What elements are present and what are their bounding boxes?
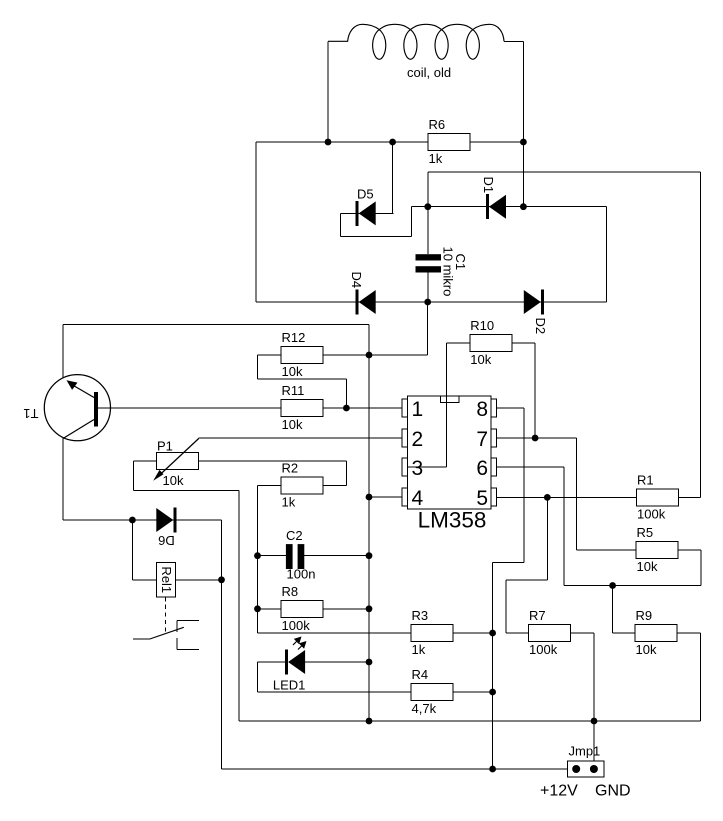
- wire R12 left: [258, 354, 281, 356]
- resistor R4 4,7k: [411, 684, 453, 701]
- wire pin5 to R1: [497, 496, 637, 498]
- resistor R2 1k: [281, 477, 323, 494]
- junction D4-D2 rail / C1 bottom: [424, 299, 431, 306]
- junction C2 left: [254, 552, 261, 559]
- LED1 light arrows: [293, 639, 300, 646]
- junction D6 row / relay branch: [129, 517, 136, 524]
- wire R8 left: [258, 608, 282, 610]
- svg-text:D5: D5: [357, 187, 374, 202]
- svg-text:100n: 100n: [287, 567, 316, 582]
- wire R8 right: [323, 608, 369, 610]
- junction pin5 / R7 drop: [544, 494, 551, 501]
- wire x257 vertical: [257, 486, 259, 634]
- svg-text:10k: 10k: [282, 417, 303, 432]
- LM358 pin 7: [491, 429, 497, 447]
- svg-text:10k: 10k: [636, 642, 657, 657]
- wire D5 row: [341, 212, 394, 214]
- wire frame top: [428, 171, 701, 173]
- wire P1 wiper to pin2: [199, 437, 403, 439]
- wire +12V rail: [222, 768, 569, 770]
- resistor R12 10k: [281, 347, 323, 364]
- svg-text:3: 3: [412, 457, 424, 480]
- wire C1 node downleg: [427, 302, 429, 355]
- wire D5 step to node: [411, 206, 427, 208]
- wire x369 vertical bus: [368, 324, 370, 721]
- junction R12 right / bus: [366, 352, 373, 359]
- svg-text:LED1: LED1: [273, 678, 306, 693]
- relay Rel1 coil box: [157, 562, 176, 597]
- wire pin6 down: [563, 467, 565, 586]
- wire P1 right: [199, 460, 347, 462]
- T1 emitter with arrow: [70, 384, 94, 398]
- LM358 pin 2: [402, 429, 408, 447]
- LM358 pin 6: [491, 458, 497, 476]
- wire R9 right: [677, 632, 700, 634]
- wire D6 row: [63, 519, 222, 521]
- junction coil-right / R6 rail: [520, 139, 527, 146]
- wire coil right vertical: [522, 41, 524, 206]
- wire P1 left: [134, 460, 157, 462]
- junction LED1 right / bus: [366, 659, 373, 666]
- wire pin7: [497, 437, 577, 439]
- svg-text:1k: 1k: [282, 495, 296, 510]
- wire coil left lead: [327, 41, 329, 142]
- wire pin4: [369, 496, 403, 498]
- wire R1 right: [679, 496, 701, 498]
- resistor R3 1k: [411, 625, 453, 642]
- wire frame right to R1: [700, 172, 702, 497]
- resistor R5 10k: [636, 542, 678, 559]
- svg-text:coil, old: coil, old: [407, 65, 451, 80]
- svg-text:R9: R9: [636, 608, 653, 623]
- svg-text:D6: D6: [158, 533, 175, 548]
- svg-text:Jmp1: Jmp1: [569, 744, 601, 759]
- svg-text:R8: R8: [282, 584, 299, 599]
- wire R3 right: [453, 632, 493, 634]
- junction pin4 / bus: [366, 494, 373, 501]
- wire R6 rail: [256, 141, 523, 143]
- svg-text:8: 8: [476, 398, 488, 421]
- wire bottom rail: [239, 720, 700, 722]
- svg-text:10k: 10k: [470, 352, 491, 367]
- svg-text:R2: R2: [282, 461, 299, 476]
- wire R7 left: [506, 632, 528, 634]
- svg-text:D2: D2: [533, 318, 548, 335]
- wire Rel1 right: [175, 579, 221, 581]
- junction bus / bottom rail: [366, 718, 373, 725]
- svg-text:D4: D4: [349, 272, 364, 289]
- svg-text:10k: 10k: [637, 559, 658, 574]
- svg-text:6: 6: [476, 457, 488, 480]
- resistor R10 10k: [470, 335, 512, 352]
- svg-text:1k: 1k: [412, 642, 426, 657]
- junction pin7 / R10 drop: [532, 435, 539, 442]
- jumper Jmp1: [568, 761, 605, 777]
- wire left frame vertical: [255, 142, 257, 302]
- potentiometer P1 10k: [157, 453, 199, 470]
- wire pin3 internal riser: [445, 343, 447, 467]
- svg-text:1: 1: [412, 398, 424, 421]
- wire pin5 drop: [546, 497, 548, 579]
- svg-text:R7: R7: [529, 608, 546, 623]
- wire R10 right: [512, 342, 535, 344]
- diode D6: [173, 508, 176, 533]
- op-amp U1 LM358 body: [408, 396, 492, 509]
- svg-text:P1: P1: [157, 439, 173, 454]
- junction R9 riser / R5 row: [609, 582, 616, 589]
- junction coil-left / R6 rail: [325, 139, 332, 146]
- LM358 pin 3: [402, 458, 408, 476]
- svg-text:R1: R1: [637, 473, 654, 488]
- resistor R8 100k: [281, 600, 323, 617]
- wire R12 left across: [258, 378, 347, 380]
- wire LED1 left: [258, 661, 286, 663]
- svg-text:R4: R4: [412, 667, 429, 682]
- wire D2-D1 right vertical: [606, 207, 608, 302]
- svg-text:GND: GND: [595, 783, 631, 800]
- wire P1-R2 link: [346, 461, 348, 486]
- junction R4 right: [489, 689, 496, 696]
- junction coil-right riser / D1 rail: [520, 203, 527, 210]
- diode D2: [541, 290, 544, 315]
- wire R7 right: [571, 632, 595, 634]
- svg-text:R11: R11: [282, 383, 305, 398]
- svg-text:7: 7: [476, 428, 488, 451]
- wire T1 bottom lead: [62, 438, 64, 520]
- svg-text:T1: T1: [23, 406, 38, 421]
- wire pin8 across: [493, 561, 524, 563]
- wire C2 right: [304, 555, 369, 557]
- wire R2 left: [258, 485, 282, 487]
- junction R3 right: [489, 630, 496, 637]
- diode LED1: [285, 650, 288, 675]
- resistor R7 100k: [529, 625, 571, 642]
- svg-text:10k: 10k: [163, 473, 184, 488]
- wire R5 right down: [700, 550, 702, 586]
- svg-text:1k: 1k: [429, 151, 443, 166]
- junction C2 right / bus: [366, 552, 373, 559]
- svg-text:C2: C2: [286, 528, 303, 543]
- wire R9 left riser: [612, 586, 614, 634]
- wire pin5 drop down: [505, 580, 507, 633]
- svg-text:R5: R5: [637, 525, 654, 540]
- junction +12V rail: [489, 766, 496, 773]
- T1 collector: [63, 420, 94, 439]
- resistor R11 10k: [281, 400, 323, 417]
- wire pin6: [497, 466, 564, 468]
- wire top-left horizontal: [63, 323, 369, 325]
- wire R12 left to R11 right: [345, 379, 347, 408]
- wire C1 bottom lead: [427, 273, 429, 303]
- wire GND drop: [593, 633, 595, 761]
- wire D5 cathode riser: [392, 142, 394, 213]
- junction D1 rail / C1 top / D5 step: [424, 203, 431, 210]
- wire R2 right: [323, 485, 347, 487]
- wire C1 top lead / frame left: [427, 172, 429, 254]
- wire x239 vertical: [238, 490, 240, 721]
- wire D5 anode step up: [410, 207, 412, 237]
- diode D5: [356, 201, 359, 226]
- wire R3 left: [258, 632, 412, 634]
- svg-text:10k: 10k: [282, 364, 303, 379]
- wire T1 top lead: [62, 324, 64, 378]
- LM358 notch: [441, 396, 459, 403]
- wire D4-D2 rail: [256, 301, 607, 303]
- svg-text:R12: R12: [282, 330, 306, 345]
- diode D1: [486, 194, 489, 219]
- wire LED1 left down: [257, 662, 259, 692]
- LM358 pin 8: [491, 399, 497, 417]
- wire pin7 down: [575, 438, 577, 550]
- svg-text:100k: 100k: [637, 507, 666, 522]
- capacitor C2 100n: [286, 544, 293, 569]
- wire pin8 down: [523, 408, 525, 562]
- svg-text:100k: 100k: [282, 618, 311, 633]
- wire pin8: [497, 407, 524, 409]
- resistor R9 10k: [635, 625, 677, 642]
- junction Rel1 right: [218, 576, 225, 583]
- wire R9 right down: [699, 633, 701, 721]
- wire R12 right: [323, 354, 369, 356]
- capacitor C1 10 mikro: [416, 254, 442, 260]
- junction R8 left: [254, 605, 261, 612]
- wire R9 left: [613, 632, 635, 634]
- junction D5 riser / R6 rail: [389, 139, 396, 146]
- svg-text:LM358: LM358: [418, 508, 487, 533]
- wire relay branch down: [131, 520, 133, 580]
- svg-text:R6: R6: [429, 117, 446, 132]
- wire C2 left: [258, 555, 287, 557]
- svg-text:2: 2: [412, 428, 424, 451]
- LM358 pin 1: [402, 399, 408, 417]
- svg-text:100k: 100k: [529, 642, 558, 657]
- svg-text:Rel1: Rel1: [159, 566, 174, 593]
- wire x492 vertical: [492, 562, 494, 769]
- junction GND drop / bottom rail: [591, 718, 598, 725]
- wire pin5 drop across: [506, 579, 547, 581]
- wire LED1 right: [305, 661, 369, 663]
- wire base row / R11 / pin1: [98, 407, 403, 409]
- wire relay branch to Rel1: [132, 579, 156, 581]
- svg-text:D1: D1: [481, 177, 496, 194]
- wire x221 vertical: [221, 520, 223, 769]
- wire R10 right down: [534, 343, 536, 438]
- transistor T1: [44, 375, 110, 441]
- svg-text:10 mikro: 10 mikro: [441, 247, 456, 297]
- relay switch contact: [133, 638, 150, 640]
- wire D5 anode step down: [340, 213, 342, 236]
- wire R4 right: [453, 691, 493, 693]
- LM358 pin 5: [491, 488, 497, 506]
- svg-text:+12V: +12V: [540, 783, 578, 800]
- wire D1 rail: [428, 206, 607, 208]
- junction R11 right / R12 loop: [343, 405, 350, 412]
- wire P1 left across: [134, 489, 240, 491]
- junction R8 right / bus: [366, 605, 373, 612]
- wire R10 left: [446, 342, 469, 344]
- wire R5 right: [678, 549, 701, 551]
- wire P1 left down: [133, 461, 135, 490]
- T1 base bar: [94, 392, 98, 427]
- svg-text:R3: R3: [412, 608, 429, 623]
- svg-text:R10: R10: [470, 318, 494, 333]
- wire R4 left: [258, 691, 412, 693]
- svg-text:4,7k: 4,7k: [412, 701, 437, 716]
- resistor R6 1k: [428, 134, 470, 151]
- wire R12 left down: [257, 355, 259, 379]
- wire coil right lead: [504, 40, 523, 42]
- wire node to x369: [369, 354, 428, 356]
- resistor R1 100k: [637, 489, 679, 506]
- wire pin6-R5 row: [564, 585, 701, 587]
- wire D5 anode step across: [341, 236, 412, 238]
- diode D4: [356, 290, 359, 315]
- wire R5 left: [576, 549, 636, 551]
- relay actuator dashed link: [165, 597, 167, 632]
- inductor coil, old: [328, 24, 504, 59]
- LM358 pin 4: [402, 488, 408, 506]
